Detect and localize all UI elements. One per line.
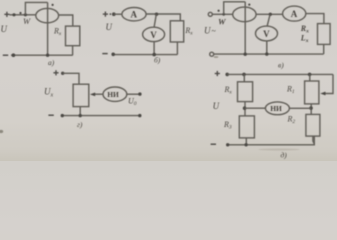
junction dot at - terminal (circuit a) xyxy=(12,53,16,57)
wire R1 top lead (circuit d) xyxy=(309,74,311,81)
junction of voltmeter and bottom rail (circuit b) xyxy=(152,53,156,57)
voltmeter V (circuit b) xyxy=(143,27,165,41)
svg-text:V: V xyxy=(263,29,270,39)
wire bottom rail (circuit g) xyxy=(62,115,140,117)
wire ammeter to load (circuit v) xyxy=(306,14,324,24)
wire voltmeter bottom lead (circuit b) xyxy=(153,42,155,55)
junction dots at + lead (circuit b) xyxy=(110,13,112,15)
wire wattmeter to resistor Rx (circuit a) xyxy=(59,15,73,26)
ammeter A (circuit v) xyxy=(283,6,306,21)
node - terminal (circuit d) xyxy=(211,144,216,145)
wire R2 bottom lead (circuit d) xyxy=(313,136,314,144)
wire junction down to voltmeter (circuit b) xyxy=(154,14,156,27)
node + terminal (circuit g) xyxy=(53,70,58,75)
svg-text:U: U xyxy=(204,26,211,36)
svg-text:~: ~ xyxy=(212,26,217,35)
wire left node to null indicator (circuit d) xyxy=(245,107,266,109)
potentiometer resistor (circuit g) xyxy=(73,84,89,106)
null indicator NI (circuit d) xyxy=(265,102,289,115)
resistor R1 adjustable (circuit d) xyxy=(305,81,319,104)
svg-text:в): в) xyxy=(278,61,284,70)
svg-text:A: A xyxy=(131,10,138,20)
junction dot top of Rx branch (circuit d) xyxy=(242,73,246,77)
junction of potentiometer and bottom rail (circuit g) xyxy=(79,114,82,117)
wire bottom rail (circuit a) xyxy=(11,54,73,56)
svg-text:НИ: НИ xyxy=(270,104,282,113)
wire voltage-coil loop of wattmeter (circuit a) xyxy=(25,2,47,14)
wire voltage-coil down through meter to bottom rail (circuit v) xyxy=(244,2,246,54)
resistor R3 (circuit d) xyxy=(239,116,254,138)
svg-text:а): а) xyxy=(48,58,55,67)
junction of voltage-coil tap (circuit v) xyxy=(222,13,225,16)
wire voltmeter bottom lead (circuit v) xyxy=(266,41,268,54)
terminal mark * of wattmeter (circuit v) xyxy=(218,10,220,12)
node o input terminal top (circuit v) xyxy=(208,12,212,16)
wire voltage-coil loop of wattmeter (circuit v) xyxy=(224,2,246,15)
node + terminal (circuit b) xyxy=(103,12,108,17)
wire bottom rail (circuit d) xyxy=(228,136,315,145)
wire ammeter to junction and to resistor (circuit b) xyxy=(146,14,180,21)
wire resistor bottom lead (circuit b) xyxy=(176,42,178,55)
svg-text:Rx: Rx xyxy=(53,26,62,37)
svg-text:W: W xyxy=(218,17,227,27)
wire input to wattmeter (circuit v) xyxy=(212,13,233,15)
svg-text:U: U xyxy=(106,22,113,32)
svg-text:г): г) xyxy=(77,120,83,129)
svg-text:R3: R3 xyxy=(223,120,232,131)
terminal dot output bottom (circuit g) xyxy=(138,114,141,117)
wire wattmeter to ammeter (circuit v) xyxy=(256,13,283,15)
svg-text:НИ: НИ xyxy=(107,90,119,99)
wire wiper of R1 from top rail (circuit d) xyxy=(324,74,333,93)
node + terminal (circuit d) xyxy=(215,71,220,76)
wire voltage-coil down through meter to bottom rail (circuit a) xyxy=(47,2,49,55)
terminal mark * of wattmeter current coil (circuit a) xyxy=(19,12,21,14)
terminal mark * of voltage coil (circuit v) xyxy=(248,4,250,6)
wire potentiometer bottom lead (circuit g) xyxy=(79,107,81,116)
terminal dot - (circuit b) xyxy=(111,53,115,57)
wire Rx top lead (circuit d) xyxy=(243,74,245,81)
wire null indicator to right node (circuit d) xyxy=(289,107,311,109)
junction dot R3 bottom (circuit d) xyxy=(244,143,247,146)
resistor Rx (circuit a) xyxy=(66,26,80,46)
wiper arrowhead of R1 (circuit d) xyxy=(320,92,325,96)
ammeter A (circuit b) xyxy=(122,8,146,21)
junction dot top of R1 branch (circuit d) xyxy=(308,73,312,77)
terminal dot + (circuit d) xyxy=(225,73,229,77)
wire smudge artifact (scan noise, bottom) xyxy=(258,148,300,150)
junction of voltage-coil tap (circuit a) xyxy=(24,13,27,16)
terminal dot + (circuit g) xyxy=(61,72,64,75)
node + terminal (circuit a) xyxy=(4,12,9,17)
node - terminal (circuit b) xyxy=(102,53,107,54)
resistor Rx (circuit b) xyxy=(170,21,183,42)
svg-text:д): д) xyxy=(281,150,288,159)
wire bottom rail (circuit v) xyxy=(214,53,324,55)
junction dot left bridge node (circuit d) xyxy=(243,106,247,110)
wire + lead to wattmeter (circuit a) xyxy=(10,14,36,16)
junction of voltage coil and bottom rail (circuit a) xyxy=(46,54,49,57)
svg-text:A: A xyxy=(291,9,298,19)
wire + lead to potentiometer (circuit g) xyxy=(63,73,79,84)
junction of voltage coil and bottom rail (circuit v) xyxy=(244,53,247,56)
svg-text:U: U xyxy=(213,101,220,111)
wire junction down to voltmeter (circuit v) xyxy=(267,14,270,26)
svg-text:Lx: Lx xyxy=(300,34,309,45)
wire resistor Rx bottom lead (circuit a) xyxy=(72,46,74,56)
svg-text:V: V xyxy=(150,30,157,40)
terminal dot output top (circuit g) xyxy=(138,92,141,95)
svg-text:U0: U0 xyxy=(128,96,137,107)
wiper arrow of null indicator (circuit g) xyxy=(94,93,104,95)
wire top rail (circuit d) xyxy=(227,73,333,75)
resistor Rx (circuit d) xyxy=(238,82,253,102)
wire output of null indicator (circuit g) xyxy=(127,93,140,95)
svg-text:R2: R2 xyxy=(287,115,296,126)
svg-text:Rx: Rx xyxy=(184,26,193,37)
svg-text:W: W xyxy=(23,16,31,26)
svg-text:Rx: Rx xyxy=(224,85,233,96)
wire Rx to R3 lead (circuit d) xyxy=(244,102,246,116)
junction of voltmeter and bottom rail (circuit v) xyxy=(265,52,268,55)
wattmeter W (circuit v) xyxy=(233,7,256,22)
load impedance Rx Lx (circuit v) xyxy=(318,24,331,45)
wire R3 bottom lead (circuit d) xyxy=(245,138,247,145)
junction dot of voltmeter tap (circuit v) xyxy=(269,13,272,16)
voltmeter V (circuit v) xyxy=(256,26,278,41)
terminal dot - (circuit d) xyxy=(226,143,229,146)
wire R1 to R2 lead (circuit d) xyxy=(310,104,312,115)
terminal dot - (circuit g) xyxy=(61,114,64,117)
terminal dot (circuit b) xyxy=(112,12,116,16)
wire + to ammeter (circuit b) xyxy=(114,13,122,15)
junction dot of voltmeter tap (circuit b) xyxy=(155,13,158,16)
junction dot right bridge node (circuit d) xyxy=(309,106,313,110)
svg-text:Ux: Ux xyxy=(44,87,54,99)
wire load bottom lead (circuit v) xyxy=(323,44,325,54)
wattmeter W (circuit a) xyxy=(36,8,59,22)
terminal mark * of wattmeter voltage coil (circuit a) xyxy=(52,4,54,6)
node - terminal (circuit a) xyxy=(3,55,8,56)
junction dot on + lead (circuit a) xyxy=(12,13,15,16)
node - terminal (circuit g) xyxy=(48,115,53,116)
resistor R2 (circuit d) xyxy=(306,114,320,136)
svg-text:U: U xyxy=(1,24,8,34)
svg-text:б): б) xyxy=(154,56,161,65)
wire bottom rail (circuit b) xyxy=(113,54,177,56)
svg-text:R1: R1 xyxy=(286,85,295,96)
node o input terminal bottom (circuit v) xyxy=(210,52,214,56)
null indicator NI (circuit g) xyxy=(103,87,127,101)
